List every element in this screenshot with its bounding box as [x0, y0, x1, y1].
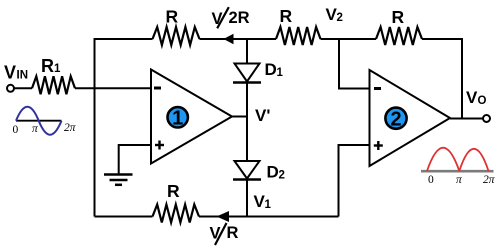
wire top rail: [95, 39, 153, 217]
svg-text:R: R: [41, 56, 54, 76]
wire top right corner down to output: [422, 39, 462, 119]
svg-text:1: 1: [277, 67, 284, 79]
resistor R bottom: [153, 205, 200, 223]
op-amp U2 minus marker: [374, 87, 381, 90]
op-amp U1: [151, 70, 232, 164]
svg-text:IN: IN: [17, 70, 29, 82]
wire input to inverting input of U1: [14, 87, 32, 89]
svg-text:R: R: [392, 7, 405, 27]
wire U2 output: [450, 118, 484, 120]
svg-text:0: 0: [13, 124, 19, 136]
wire bottom rail right: [199, 216, 339, 218]
svg-text:V': V': [255, 106, 270, 125]
svg-text:0: 0: [428, 174, 434, 186]
wire bottom rail to non-inverting input of U2: [339, 145, 370, 217]
input terminal: [7, 85, 14, 92]
svg-text:2π: 2π: [64, 122, 77, 134]
output terminal: [483, 115, 490, 122]
diode D1: [235, 64, 260, 82]
op-amp U1 number badge 1: [168, 107, 188, 127]
op-amp U1 minus marker: [154, 87, 161, 90]
svg-text:D: D: [265, 60, 277, 79]
ground: [104, 175, 133, 185]
svg-text:2: 2: [337, 12, 343, 24]
wire U1 output to node V': [232, 116, 248, 118]
wire diode branch vertical: [246, 39, 248, 217]
svg-text:π: π: [32, 123, 39, 135]
svg-text:V: V: [212, 10, 223, 28]
resistor R feedback of U2: [376, 27, 422, 45]
wire top between R and R right: [321, 38, 377, 40]
resistor R1: [32, 76, 75, 94]
wire non-inverting input U1 to ground: [119, 145, 151, 175]
svg-text:V: V: [466, 88, 478, 107]
svg-text:2π: 2π: [483, 174, 496, 186]
svg-text:2: 2: [279, 170, 285, 182]
wire R1 to op-amp: [75, 87, 151, 89]
svg-text:R: R: [167, 181, 180, 201]
wire node V2 to inverting input of U2: [339, 39, 370, 89]
svg-text:2: 2: [390, 109, 401, 131]
svg-text:D: D: [267, 163, 279, 182]
wire bottom rail left: [95, 216, 153, 218]
output rectified waveform: [427, 148, 489, 171]
wire top between R and R: [200, 38, 277, 40]
svg-text:1: 1: [265, 199, 272, 211]
svg-text:R: R: [280, 6, 293, 26]
resistor R middle top: [276, 27, 321, 45]
svg-text:O: O: [478, 95, 487, 107]
current arrow V/2R: [224, 34, 234, 44]
resistor R top feedback of U1: [153, 27, 200, 45]
svg-text:R: R: [227, 224, 239, 242]
op-amp U2 plus marker: [374, 141, 383, 150]
diode D2: [235, 161, 260, 179]
svg-text:π: π: [456, 174, 463, 186]
current arrow V/R: [217, 211, 230, 222]
svg-text:R: R: [166, 7, 179, 27]
svg-text:2R: 2R: [229, 9, 250, 27]
svg-text:V: V: [4, 63, 16, 83]
op-amp U1 plus marker: [155, 141, 164, 150]
op-amp U2: [370, 70, 451, 166]
input sine waveform: [16, 120, 62, 122]
output rectified waveform axis: [421, 170, 494, 173]
svg-text:1: 1: [172, 108, 183, 130]
op-amp U2 number badge 2: [385, 108, 406, 129]
svg-text:1: 1: [54, 63, 61, 75]
